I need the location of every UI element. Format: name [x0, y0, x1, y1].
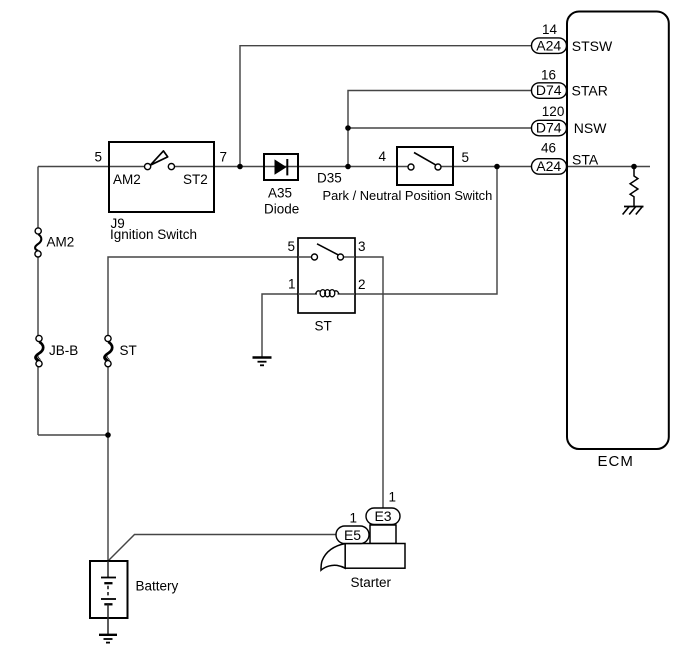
contact circle D35 pin5 [435, 164, 441, 170]
wire: bottom rail joining left riser to battery riser [38, 434, 108, 436]
battery box [90, 561, 128, 618]
svg-text:AM2: AM2 [113, 172, 141, 187]
node: junction NSW tap on riser [345, 125, 351, 131]
svg-text:STSW: STSW [572, 38, 613, 54]
connector AM2 fusible link [35, 228, 41, 257]
wire: park/neutral switch pin 5 to ECM STA connector [438, 166, 532, 168]
connector oval A24 (STSW) [532, 38, 567, 54]
battery cell 2 short plate [104, 603, 112, 605]
wire: AM2 fuse to JB-B connector [37, 256, 39, 336]
diode symbol cathode bar [286, 159, 288, 175]
wire: riser below ST connector to battery [107, 366, 109, 561]
svg-text:Ignition Switch: Ignition Switch [110, 227, 197, 242]
connector oval D74 (STAR) [532, 83, 567, 99]
svg-text:ST: ST [120, 343, 137, 358]
connector E5 oval [336, 526, 369, 544]
svg-text:E3: E3 [374, 508, 391, 524]
wire: main row AM2 feed from left riser to ignition switch [38, 166, 148, 168]
battery internal lead top [107, 561, 109, 578]
battery cell 2 long plate [101, 598, 116, 600]
wire: relay contact row inside box (pin3 side) [341, 256, 356, 258]
svg-text:A24: A24 [536, 38, 561, 54]
relay ST box [298, 238, 355, 313]
wire: relay contact row inside box (pin5 side) [298, 256, 315, 258]
switch blade D35 [414, 153, 436, 165]
coil ST relay [316, 290, 340, 297]
svg-text:JB-B: JB-B [49, 343, 78, 358]
connector oval D74 (NSW) [532, 120, 567, 136]
svg-text:A24: A24 [536, 158, 561, 174]
node: junction STA / internal resistor [631, 164, 637, 170]
node: junction after ignition switch (STSW tap) [237, 164, 243, 170]
battery cell 1 long plate [101, 577, 116, 579]
wire: inside ignition switch [145, 151, 175, 170]
svg-text:4: 4 [379, 149, 387, 164]
svg-text:STA: STA [572, 152, 599, 168]
ground: below battery [99, 635, 117, 643]
wire: ST relay pin 2 to STA net riser [355, 167, 497, 295]
node: junction STA / relay pin2 riser [494, 164, 500, 170]
switch blade J9 key wedge [150, 151, 167, 165]
svg-text:ECM: ECM [598, 453, 634, 470]
contact circle ST pin5 [312, 254, 318, 260]
wire: relay coil leads [298, 293, 317, 295]
svg-text:Park / Neutral Position Switch: Park / Neutral Position Switch [323, 188, 493, 203]
svg-text:D35: D35 [317, 171, 342, 186]
diode symbol triangle [275, 159, 287, 174]
svg-text:ST: ST [315, 319, 332, 334]
wire: STSW riser from node after ignition switch [240, 46, 532, 167]
svg-text:1: 1 [350, 511, 358, 526]
wire: left riser x=38 down to AM2 fuse [37, 167, 39, 230]
wire: NSW branch from riser to ECM [348, 127, 532, 129]
svg-text:5: 5 [288, 239, 296, 254]
wire: STAR riser from node D35 [348, 91, 532, 167]
diode A35 box [264, 154, 298, 180]
node: junction D35 (STAR/NSW tap) [345, 164, 351, 170]
svg-text:14: 14 [542, 22, 558, 37]
wire: STA net inside ECM to pull-up resistor node [566, 166, 650, 168]
wire: ST relay pin 3 to starter E3 drop [355, 257, 383, 508]
contact circle ST pin3 [338, 254, 344, 260]
connector ST (fusible link) [104, 335, 112, 366]
wire: ST relay pin 1 to ground [262, 294, 298, 357]
wire: JB-B connector down to bottom rail [37, 366, 39, 435]
svg-text:3: 3 [358, 239, 366, 254]
svg-text:5: 5 [462, 150, 470, 165]
svg-text:ST2: ST2 [183, 172, 208, 187]
svg-text:1: 1 [389, 490, 397, 505]
svg-text:E5: E5 [344, 527, 361, 543]
starter solenoid stub box [370, 525, 396, 544]
battery dashed link [107, 586, 109, 597]
contact circle J9 AM2 [145, 164, 151, 170]
wire: battery positive to starter E5 [108, 535, 336, 562]
ground: chassis ground inside ECM [623, 207, 644, 215]
starter body box [345, 544, 405, 569]
connector oval A24 (STA) [532, 159, 567, 175]
wire: ST relay pin 5 row to x=108 riser [108, 257, 298, 336]
contact circle J9 ST2 [168, 164, 174, 170]
svg-text:7: 7 [220, 150, 228, 165]
svg-text:46: 46 [541, 141, 556, 156]
svg-text:1: 1 [288, 277, 296, 292]
switch blade ST relay [317, 244, 340, 256]
svg-text:Diode: Diode [264, 202, 299, 217]
svg-text:Starter: Starter [351, 575, 392, 590]
svg-text:A35: A35 [268, 186, 292, 201]
connector E3 oval [366, 508, 400, 525]
wire: ignition switch ST2 output row to park/neutral switch pin 4 [172, 166, 412, 168]
ECM box [567, 12, 669, 450]
starter horn shape [321, 544, 345, 571]
contact circle D35 pin4 [408, 164, 414, 170]
node: junction of bottom rail and battery riser [105, 432, 111, 438]
svg-text:2: 2 [358, 277, 366, 292]
svg-text:Battery: Battery [136, 579, 179, 594]
ignition switch J9 box [109, 142, 214, 212]
wire: battery negative lead to ground [107, 604, 109, 634]
svg-text:16: 16 [541, 67, 556, 82]
svg-text:D74: D74 [536, 120, 562, 136]
battery cell 1 short plate [104, 582, 112, 584]
connector JB-B [35, 335, 43, 366]
svg-text:5: 5 [95, 150, 103, 165]
svg-text:D74: D74 [536, 82, 562, 98]
park/neutral position switch D35 box [397, 147, 453, 185]
svg-text:120: 120 [542, 104, 565, 119]
ground: below ST relay coil [253, 358, 272, 366]
svg-text:NSW: NSW [574, 120, 607, 136]
svg-text:AM2: AM2 [47, 235, 75, 250]
svg-text:STAR: STAR [572, 83, 608, 99]
resistor (ECM internal pull-down) [630, 167, 638, 207]
